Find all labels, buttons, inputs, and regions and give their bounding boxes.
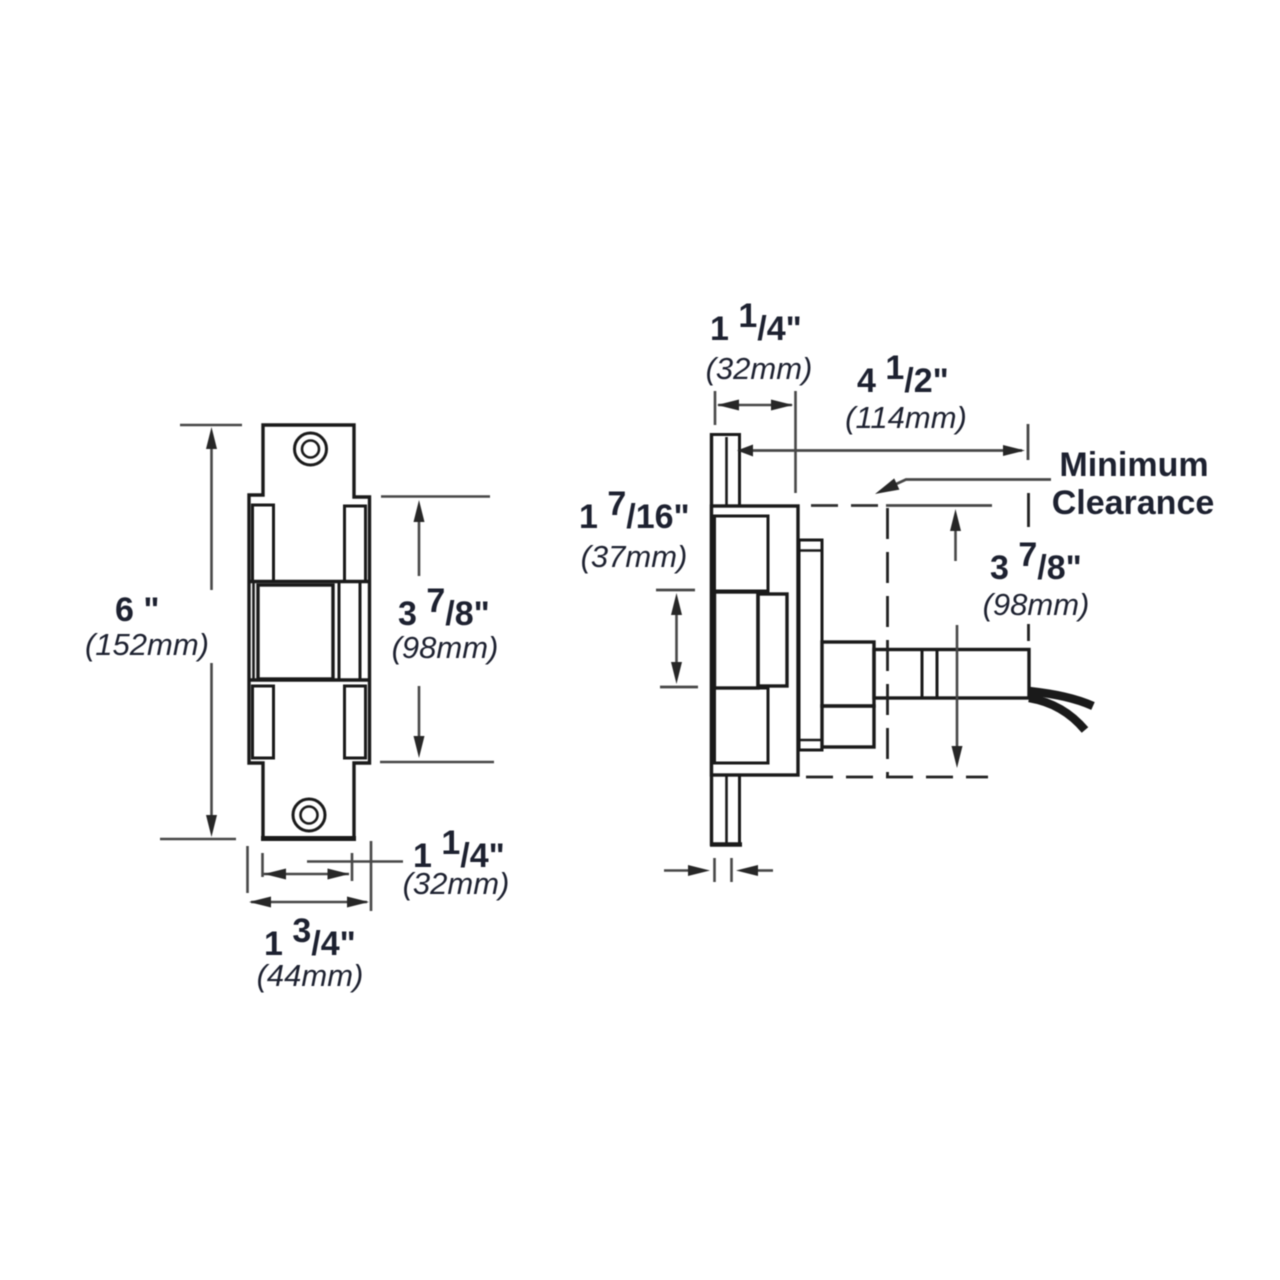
keeper lip box lower (822, 706, 874, 747)
upper-right rail (345, 506, 366, 582)
svg-text:1 7/16": 1 7/16" (579, 485, 690, 536)
dashed minimum clearance vertical (1027, 493, 1030, 527)
dimension 3 7/8 right : tick and arrows (886, 504, 992, 507)
upper-left rail (253, 505, 274, 582)
lower-right rail (345, 686, 366, 758)
dimension 4 1/2 : line (742, 449, 1022, 452)
horizontal separator upper (249, 580, 369, 583)
faceplate edge (side view) (710, 433, 713, 846)
svg-text:4 1/2": 4 1/2" (857, 349, 949, 400)
dimension 3 7/8 left : ticks (381, 495, 490, 498)
svg-text:(32mm): (32mm) (403, 866, 510, 901)
dimension 1 1/4 top-right : arrows (718, 404, 792, 407)
wire 2 (1029, 698, 1085, 730)
top screw hole (295, 433, 327, 465)
keeper block (center) (258, 585, 333, 679)
faceplate thickness dimension (713, 858, 716, 882)
svg-text:1 3/4": 1 3/4" (264, 912, 356, 963)
faceplate bottom thick edge (261, 836, 356, 841)
faceplate outline (front view) (249, 425, 370, 839)
dimension 3 7/8 left : arrows (418, 518, 421, 576)
strike body (side view) (712, 506, 799, 775)
dashed door line bottom (806, 776, 988, 779)
bracket plate behind body (799, 540, 822, 750)
middle right strip line b (359, 582, 362, 679)
svg-text:3 7/8": 3 7/8" (990, 536, 1082, 587)
inner box upper (715, 516, 769, 591)
svg-text:3 7/8": 3 7/8" (398, 582, 490, 633)
svg-text:(37mm): (37mm) (581, 539, 688, 574)
inner box lower (715, 688, 769, 763)
keeper lip box upper (822, 642, 874, 706)
middle right strip line a (338, 582, 341, 679)
wire 1 (1029, 691, 1093, 706)
minimum clearance leader (881, 480, 1051, 492)
svg-text:(44mm): (44mm) (257, 958, 364, 993)
dashed hinge line vertical (886, 508, 889, 778)
middle left inner line (252, 582, 255, 681)
keeper block (side view) (758, 594, 787, 686)
dimension 1 1/4 top-right : ticks (714, 391, 717, 425)
inner box middle (715, 592, 759, 688)
dimension 6" : extension ticks (180, 424, 242, 427)
svg-text:(114mm): (114mm) (845, 400, 967, 435)
dimension 6" : arrow line (210, 443, 213, 590)
dashed door line top (811, 504, 880, 507)
svg-text:(98mm): (98mm) (392, 630, 499, 665)
lower-left rail (253, 686, 274, 758)
svg-text:Minimum: Minimum (1059, 446, 1208, 484)
svg-text:Clearance: Clearance (1052, 484, 1215, 522)
dimension 1 7/16 : ticks and arrows (656, 589, 695, 592)
svg-text:(152mm): (152mm) (85, 627, 209, 662)
horizontal separator lower (249, 678, 369, 681)
bottom screw hole (293, 799, 325, 831)
faceplate lower part (side view) (725, 775, 728, 843)
svg-text:(98mm): (98mm) (983, 587, 1090, 622)
svg-text:6 ": 6 " (115, 591, 159, 629)
svg-text:(32mm): (32mm) (706, 351, 813, 386)
dimension 1 1/4 bottom-left : ticks and lines (261, 853, 264, 877)
svg-text:1 1/4": 1 1/4" (710, 297, 802, 348)
dimension 1 3/4 : arrow line (251, 901, 367, 904)
solenoid housing (874, 650, 1029, 699)
dimension 1 3/4 : extension lines (246, 846, 249, 893)
